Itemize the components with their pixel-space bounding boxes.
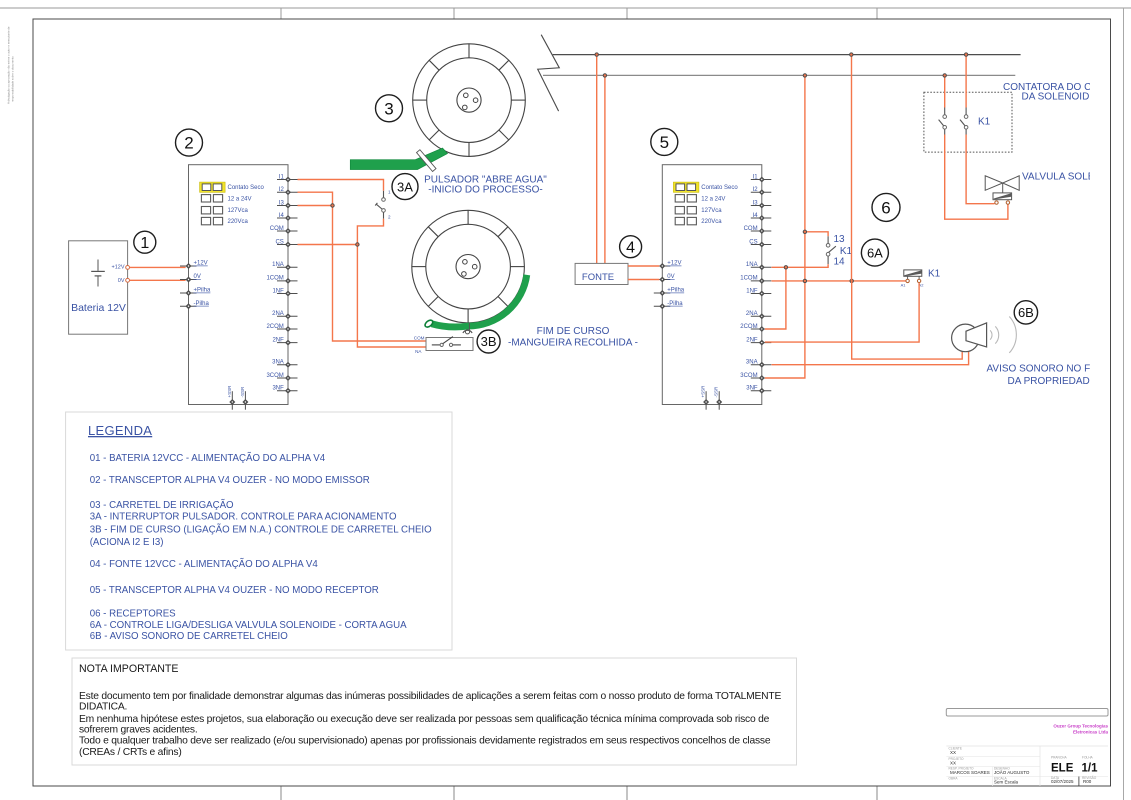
- svg-text:I2: I2: [753, 187, 759, 193]
- wire bus L1 to contactor right contact: [965, 55, 967, 108]
- callout 6: [872, 193, 900, 221]
- relay coil K1 (item 6A): [901, 269, 941, 288]
- contactor K1 contact right: [960, 108, 968, 135]
- svg-text:-Pilha: -Pilha: [667, 301, 683, 307]
- svg-text:Contato Seco: Contato Seco: [228, 185, 265, 191]
- node 1COM/busL2 junction: [803, 279, 806, 282]
- svg-text:127Vca: 127Vca: [701, 208, 722, 214]
- pushbutton S1 (3A): [375, 189, 391, 219]
- svg-text:-Pilha: -Pilha: [194, 301, 210, 307]
- horn sound waves: [990, 317, 1016, 353]
- svg-text:6B: 6B: [1018, 305, 1034, 320]
- svg-text:A1: A1: [901, 283, 907, 288]
- svg-text:I3: I3: [753, 200, 759, 206]
- callout 3B: [477, 330, 500, 353]
- svg-text:14: 14: [834, 256, 846, 267]
- wire bus L2 to contactor left contact: [944, 75, 946, 107]
- svg-text:FONTE: FONTE: [582, 272, 614, 283]
- node bus L1 contactor: [964, 53, 967, 56]
- svg-text:3B: 3B: [481, 334, 497, 349]
- sheet outer right line: [1123, 8, 1125, 800]
- svg-text:I1: I1: [753, 174, 759, 180]
- node bus L1 / fonte: [595, 53, 598, 56]
- svg-text:3A - INTERRUPTOR PULSADOR. CON: 3A - INTERRUPTOR PULSADOR. CONTROLE PARA…: [90, 511, 397, 522]
- wire U2 1COM to relay coil A1: [772, 280, 906, 282]
- wire branch to contact 13: [805, 232, 828, 237]
- green hose lower reel: [424, 275, 527, 329]
- svg-text:1NA: 1NA: [746, 262, 758, 268]
- svg-text:Sem Escala: Sem Escala: [994, 780, 1019, 785]
- aux contact K1 13/14: [826, 234, 852, 268]
- wire U1 I2 to 3B COM: [298, 192, 426, 341]
- svg-text:02/07/2025: 02/07/2025: [1051, 779, 1074, 784]
- svg-text:FIM DE CURSO: FIM DE CURSO: [537, 326, 610, 337]
- svg-text:XX: XX: [950, 750, 956, 755]
- wire battery +12V to U1: [130, 266, 186, 268]
- svg-text:3NF: 3NF: [746, 386, 758, 392]
- svg-text:3: 3: [384, 99, 393, 118]
- svg-text:5: 5: [660, 133, 669, 152]
- svg-text:ELE: ELE: [1051, 762, 1074, 774]
- svg-text:13: 13: [834, 234, 846, 245]
- svg-text:K1: K1: [978, 117, 991, 128]
- svg-text:04 - FONTE 12VCC - ALIMENTAÇÃO: 04 - FONTE 12VCC - ALIMENTAÇÃO DO ALPHA …: [90, 559, 319, 570]
- label K1 contactor: [978, 117, 991, 128]
- callout 1: [134, 231, 156, 253]
- svg-text:03 - CARRETEL DE IRRIGAÇÃO: 03 - CARRETEL DE IRRIGAÇÃO: [90, 500, 234, 511]
- svg-text:2COM: 2COM: [740, 324, 757, 330]
- svg-text:1NA: 1NA: [272, 262, 284, 268]
- node bus L1 drop: [850, 53, 853, 56]
- wire contact 14 to U2 1NA: [772, 264, 829, 267]
- irrigation reel item 03 (upper): [413, 44, 526, 157]
- svg-text:3B - FIM DE CURSO (LIGAÇÃO EM: 3B - FIM DE CURSO (LIGAÇÃO EM N.A.) CONT…: [90, 525, 432, 536]
- svg-text:1/1: 1/1: [1082, 762, 1099, 774]
- svg-text:I3: I3: [279, 200, 285, 206]
- solenoid valve: [985, 176, 1019, 205]
- label pulsador: [424, 175, 547, 196]
- svg-text:3NF: 3NF: [272, 386, 284, 392]
- svg-text:-SSR: -SSR: [714, 386, 719, 398]
- svg-text:1NF: 1NF: [746, 288, 758, 294]
- hose break slash: [417, 150, 437, 172]
- svg-text:1NF: 1NF: [272, 288, 284, 294]
- wire bus L2 to FONTE: [604, 75, 606, 263]
- wire 1COM junction to horn (left terminal): [852, 281, 963, 359]
- svg-text:02 - TRANSCEPTOR ALPHA V4 OUZE: 02 - TRANSCEPTOR ALPHA V4 OUZER - NO MOD…: [90, 475, 370, 486]
- svg-text:I2: I2: [279, 187, 285, 193]
- svg-text:+SSR: +SSR: [227, 385, 232, 398]
- callout 3: [376, 95, 403, 122]
- callout 6B: [1014, 301, 1037, 324]
- svg-text:NOTA IMPORTANTE: NOTA IMPORTANTE: [79, 663, 178, 675]
- svg-text:6A - CONTROLE LIGA/DESLIGA VAL: 6A - CONTROLE LIGA/DESLIGA VALVULA SOLEN…: [90, 620, 407, 631]
- svg-text:1COM: 1COM: [266, 276, 283, 282]
- wire contactor left to valve right terminal: [945, 135, 1008, 220]
- wire 1NA junction down to 2COM: [765, 267, 786, 329]
- svg-text:FOLHA: FOLHA: [1082, 756, 1094, 760]
- svg-text:01 - BATERIA 12VCC - ALIMENTAÇ: 01 - BATERIA 12VCC - ALIMENTAÇÃO DO ALPH…: [90, 453, 326, 464]
- wire U1 CS to junction then to 3B NA: [298, 245, 426, 348]
- svg-text:XX: XX: [950, 760, 956, 765]
- wire FONTE 0V to U2: [628, 279, 659, 281]
- svg-text:DIDATICA.: DIDATICA.: [79, 702, 127, 713]
- svg-text:Ouzer Group Tecnologias: Ouzer Group Tecnologias: [1053, 723, 1108, 728]
- svg-text:(ACIONA I2 E I3): (ACIONA I2 E I3): [90, 537, 164, 548]
- callout 5: [651, 128, 678, 155]
- svg-text:2NF: 2NF: [746, 337, 758, 343]
- sheet outer top line: [0, 7, 1131, 9]
- svg-text:R00: R00: [1083, 779, 1092, 784]
- wire S1 bottom to CS junction: [357, 219, 383, 243]
- svg-text:2NA: 2NA: [746, 311, 758, 317]
- svg-text:I1: I1: [279, 174, 285, 180]
- svg-text:I4: I4: [753, 213, 759, 219]
- contactor enclosure (item 6): [924, 92, 1012, 152]
- svg-text:3NA: 3NA: [272, 360, 284, 366]
- wire U2 3NA to horn (right terminal): [772, 352, 969, 365]
- svg-text:OBRA: OBRA: [949, 776, 959, 780]
- svg-text:12 a 24V: 12 a 24V: [701, 197, 725, 203]
- svg-text:0V: 0V: [667, 274, 674, 280]
- svg-text:NA: NA: [415, 349, 422, 354]
- svg-text:2COM: 2COM: [266, 324, 283, 330]
- svg-text:3A: 3A: [397, 179, 413, 194]
- svg-text:Bateria 12V: Bateria 12V: [71, 302, 126, 314]
- svg-text:220Vca: 220Vca: [701, 219, 722, 225]
- svg-text:0V: 0V: [118, 278, 125, 284]
- svg-text:06 - RECEPTORES: 06 - RECEPTORES: [90, 608, 176, 619]
- node bus L2 / fonte: [603, 74, 606, 77]
- left margin vertical note: [7, 26, 15, 104]
- wire bus L1 down to 1COM junction: [851, 55, 853, 281]
- svg-text:+12V: +12V: [194, 261, 208, 267]
- label fim de curso: [508, 326, 638, 348]
- svg-text:220Vca: 220Vca: [228, 219, 249, 225]
- svg-text:Eletronicas Ltda: Eletronicas Ltda: [1073, 729, 1109, 734]
- svg-text:Em nenhuma hipótese estes proj: Em nenhuma hipótese estes projetos, sua …: [79, 714, 770, 725]
- svg-text:1: 1: [140, 235, 149, 252]
- svg-text:+SSR: +SSR: [701, 385, 706, 398]
- svg-text:1: 1: [388, 189, 391, 194]
- svg-text:JOÃO AUGUSTO: JOÃO AUGUSTO: [994, 769, 1030, 775]
- svg-text:DA PROPRIEDADE: DA PROPRIEDADE: [1008, 376, 1097, 387]
- horn / sounder (item 6B): [952, 323, 987, 352]
- svg-text:0V: 0V: [194, 274, 201, 280]
- node 1NA junction: [784, 266, 787, 269]
- node I2/I3 junction: [331, 204, 334, 207]
- svg-text:MARCOS SOARES: MARCOS SOARES: [950, 770, 990, 775]
- title block: [946, 709, 1108, 787]
- svg-text:+Pilha: +Pilha: [667, 288, 685, 294]
- bus line L2: [543, 74, 1015, 76]
- svg-text:12 a 24V: 12 a 24V: [228, 197, 252, 203]
- svg-text:-INICIO DO PROCESSO-: -INICIO DO PROCESSO-: [428, 185, 542, 196]
- svg-text:2NF: 2NF: [272, 337, 284, 343]
- node CS junction: [356, 243, 359, 246]
- limit switch S2 (3B fim de curso): [414, 330, 473, 354]
- node bus L2 contactor: [943, 74, 946, 77]
- node 1COM/busL1 junction: [850, 279, 853, 282]
- wire FONTE +12V to U2: [628, 265, 659, 267]
- svg-text:COM: COM: [414, 335, 425, 340]
- svg-text:3NA: 3NA: [746, 360, 758, 366]
- svg-text:3COM: 3COM: [740, 373, 757, 379]
- svg-text:05 - TRANSCEPTOR ALPHA V4 OUZE: 05 - TRANSCEPTOR ALPHA V4 OUZER - NO MOD…: [90, 585, 379, 596]
- svg-text:127Vca: 127Vca: [228, 208, 249, 214]
- svg-text:I4: I4: [279, 213, 285, 219]
- label contatora: [1003, 82, 1131, 102]
- green hose upper reel: [350, 148, 447, 170]
- svg-text:Contato Seco: Contato Seco: [701, 185, 738, 191]
- wire U1 I3 to I2 junction: [298, 205, 333, 207]
- node bus L2 drop: [803, 74, 806, 77]
- svg-text:CS: CS: [275, 239, 283, 245]
- svg-text:K1: K1: [840, 246, 853, 257]
- callout 3A: [392, 174, 418, 200]
- node branch 13: [803, 230, 806, 233]
- power supply FONTE (item 04): [575, 263, 628, 284]
- svg-text:2NA: 2NA: [272, 311, 284, 317]
- svg-text:3COM: 3COM: [266, 373, 283, 379]
- svg-text:6A: 6A: [867, 245, 883, 260]
- battery B1 Bateria 12V: [69, 241, 130, 334]
- svg-text:Este documento tem por finalid: Este documento tem por finalidade demons…: [79, 691, 781, 702]
- nota importante box: [72, 658, 797, 765]
- reel hub spoke extension to roller: [468, 323, 470, 330]
- svg-text:2: 2: [388, 214, 391, 219]
- contactor K1 contact left: [939, 108, 947, 135]
- legenda box: [66, 412, 452, 650]
- callout 2: [176, 129, 203, 156]
- callout 4: [620, 236, 642, 258]
- wire contactor right to valve left terminal: [966, 135, 994, 204]
- label aviso sonoro: [987, 364, 1120, 387]
- svg-text:(CREAs / CRTs e afins): (CREAs / CRTs e afins): [79, 747, 182, 758]
- wire coil A2 to U2 2NF: [765, 283, 919, 342]
- svg-text:PRANCHA: PRANCHA: [1051, 756, 1067, 760]
- callout 6A: [861, 239, 888, 266]
- svg-text:+12V: +12V: [112, 264, 125, 270]
- svg-text:-SSR: -SSR: [240, 386, 245, 398]
- wire U1 I1 to pushbutton S1: [298, 180, 384, 191]
- svg-text:responsabilidade sobre o docum: responsabilidade sobre o documento: [11, 56, 15, 102]
- bus break zigzag: [538, 35, 560, 111]
- svg-text:2: 2: [184, 134, 193, 153]
- svg-text:sofrerem graves acidentes.: sofrerem graves acidentes.: [79, 725, 197, 736]
- svg-text:4: 4: [626, 239, 635, 256]
- svg-text:1COM: 1COM: [740, 276, 757, 282]
- transceiver U1 (Alpha V4 emissor, item 02): [180, 165, 298, 410]
- svg-text:Todo e qualquer trabalho deve: Todo e qualquer trabalho deve ser realiz…: [79, 736, 771, 747]
- bus line L1: [553, 54, 1021, 56]
- wire bus L2 down to 3COM (via junctions): [765, 75, 805, 378]
- label valvula: [1022, 172, 1126, 183]
- svg-text:6B - AVISO SONORO DE CARRETEL: 6B - AVISO SONORO DE CARRETEL CHEIO: [90, 631, 289, 642]
- svg-text:COM: COM: [744, 226, 758, 232]
- transceiver U2 (Alpha V4 receptor, item 05): [654, 165, 772, 410]
- svg-text:CS: CS: [749, 239, 757, 245]
- reel lower (carretel cheio): [412, 210, 525, 323]
- wire battery 0V to U1: [130, 279, 186, 281]
- wire bus L1 to FONTE: [596, 55, 598, 263]
- svg-text:K1: K1: [928, 269, 941, 280]
- svg-text:6: 6: [881, 199, 890, 218]
- svg-text:+12V: +12V: [667, 261, 681, 267]
- svg-text:-MANGUEIRA RECOLHIDA -: -MANGUEIRA RECOLHIDA -: [508, 337, 638, 348]
- svg-text:LEGENDA: LEGENDA: [88, 423, 152, 438]
- svg-text:COM: COM: [270, 226, 284, 232]
- svg-text:+Pilha: +Pilha: [194, 288, 212, 294]
